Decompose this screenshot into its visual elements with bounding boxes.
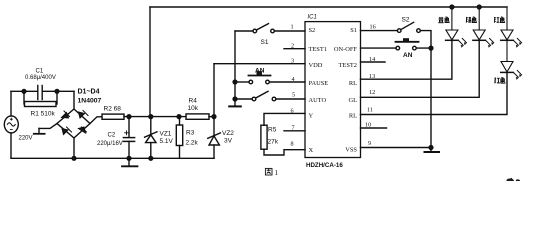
svg-text:X: X (309, 147, 314, 154)
svg-text:PAUSE: PAUSE (309, 80, 329, 87)
wire pin9 VSS (361, 147, 432, 149)
svg-text:9: 9 (368, 140, 371, 147)
svg-text:10: 10 (365, 121, 371, 128)
svg-text:3: 3 (291, 58, 294, 65)
wire pin4 (269, 81, 305, 83)
wire pin6 Y (264, 113, 305, 125)
svg-text:1: 1 (275, 169, 279, 177)
pushbutton AN (left) (249, 80, 253, 84)
svg-text:ON-OFF: ON-OFF (334, 46, 358, 53)
svg-text:13: 13 (369, 73, 375, 80)
wire AC line horizontal (11, 90, 37, 92)
node VDD junction (212, 115, 216, 119)
ground (bridge minus) (38, 128, 40, 133)
label red LED upper (494, 17, 499, 23)
resistor R4 (186, 114, 209, 119)
svg-text:VZ2: VZ2 (222, 130, 234, 137)
svg-text:5.1V: 5.1V (160, 138, 174, 145)
node C2 bottom (127, 156, 131, 160)
LED red lower (501, 40, 522, 80)
pin numbers (291, 24, 376, 148)
svg-text:R5: R5 (268, 127, 277, 134)
svg-text:C2: C2 (108, 133, 116, 139)
svg-text:S1: S1 (261, 39, 269, 46)
svg-text:14: 14 (369, 56, 375, 63)
svg-text:2.2k: 2.2k (186, 140, 199, 147)
wire bridge bottom stem (73, 138, 75, 158)
svg-text:R1 510k: R1 510k (31, 111, 56, 118)
svg-text:TEST2: TEST2 (339, 62, 357, 69)
resistor R2 (102, 114, 124, 119)
node AUTO tap (233, 97, 237, 101)
LED green (473, 7, 494, 48)
svg-text:VSS: VSS (345, 147, 357, 154)
wire VDD rail up (213, 64, 215, 117)
bottom edge artifact (507, 178, 515, 181)
IC pin names (309, 27, 358, 154)
wire pin2 stub (284, 48, 305, 50)
svg-text:S2: S2 (402, 17, 410, 24)
node AN tap (233, 80, 237, 84)
wire bridge top stem (73, 91, 75, 109)
wire pin5 (276, 98, 305, 100)
svg-text:220V: 220V (19, 136, 33, 142)
zener VZ1 (150, 117, 152, 135)
diode D1 top-left arm (62, 111, 70, 118)
node AN-S2 ground column (429, 46, 433, 50)
ground (switch rail) (229, 105, 241, 107)
bridge rectifier D1-D4 frame (57, 109, 90, 138)
diode D3 bottom-left arm (62, 127, 72, 135)
svg-text:R2 68: R2 68 (104, 106, 122, 113)
svg-text:C1: C1 (36, 69, 44, 75)
node C2 tap (127, 115, 131, 119)
label red LED lower (495, 78, 500, 84)
LED colour labels (438, 17, 505, 83)
switch AUTO (252, 97, 256, 101)
wire ground rail (switch common) (234, 31, 236, 106)
wire S2 right to ground column (420, 31, 431, 46)
svg-text:220μ/16V: 220μ/16V (97, 141, 123, 147)
wire pin15 (361, 47, 397, 49)
diode D4 bottom-right arm (79, 127, 87, 133)
AC source 220V (4, 116, 18, 133)
wire pin16 (361, 30, 398, 32)
ground (below C2) (128, 158, 130, 166)
svg-text:10k: 10k (188, 105, 199, 112)
svg-text:R4: R4 (189, 98, 198, 105)
wire AN left (235, 81, 249, 83)
zener VZ2 (213, 117, 215, 136)
wire bottom rail (11, 157, 214, 159)
svg-text:5: 5 (292, 92, 295, 99)
node VZ1 tap (149, 115, 153, 119)
node R3-R4 tap (177, 115, 181, 119)
svg-text:3V: 3V (224, 138, 233, 145)
node VSS ground (429, 146, 433, 150)
wire pin3 VDD (214, 63, 305, 65)
pushbutton AN (right) (396, 46, 400, 50)
node C1-R1 right (55, 89, 59, 93)
wire AN right to ground column (416, 47, 431, 49)
svg-text:2: 2 (291, 43, 294, 50)
ground (VSS) (430, 148, 432, 152)
wire pin1 (274, 30, 305, 32)
svg-text:VDD: VDD (309, 62, 323, 69)
capacitor C2 (electrolytic) (123, 137, 134, 139)
svg-text:6: 6 (291, 107, 294, 114)
wire bridge left output (39, 124, 57, 129)
svg-text:4: 4 (292, 76, 295, 83)
svg-text:12: 12 (369, 89, 375, 96)
wire pin13 to blue LED (361, 41, 452, 79)
LED blue (446, 7, 467, 48)
svg-text:S1: S1 (350, 27, 357, 34)
label blue LED (438, 17, 443, 23)
wire AUTO left (235, 98, 252, 100)
svg-text:1: 1 (291, 24, 294, 31)
svg-text:11: 11 (367, 106, 373, 113)
wire R3 to rail (179, 146, 181, 159)
wire ground column (430, 46, 432, 148)
wire supply node (124, 116, 186, 118)
IC IC1 HDZH/CA-16 box (305, 22, 361, 158)
svg-text:AUTO: AUTO (309, 97, 327, 104)
svg-text:S2: S2 (309, 27, 316, 34)
svg-text:R3: R3 (186, 130, 195, 137)
svg-text:GL: GL (348, 97, 357, 104)
wire R5 bottom to pin8 X (264, 149, 305, 155)
node blue LED / top rail (450, 5, 454, 9)
svg-text:VZ1: VZ1 (160, 131, 172, 138)
diode D2 top-right arm (79, 111, 89, 119)
wire C2 riser (128, 117, 130, 138)
resistor R1 (25, 102, 57, 107)
wire AC source top stem (10, 91, 12, 116)
wire C2 to rail (128, 141, 130, 158)
switch S1 (253, 29, 257, 33)
wire top rail (150, 6, 507, 8)
wire pin7 stub (284, 130, 305, 132)
label figure caption (265, 168, 272, 175)
svg-text:AN: AN (403, 52, 413, 59)
svg-text:IC1: IC1 (308, 15, 317, 21)
wire pin12 to green LED (361, 41, 480, 97)
wire pin10 stub (361, 127, 387, 129)
wire R3 riser (179, 117, 181, 125)
capacitor C1 (37, 86, 39, 100)
svg-text:RL: RL (349, 112, 357, 119)
svg-text:16: 16 (370, 24, 376, 31)
node green LED / top rail (477, 5, 481, 9)
svg-text:RL: RL (349, 80, 357, 87)
wire R1 right riser (56, 91, 58, 104)
wire R1 left riser (23, 91, 25, 104)
switch S2 (397, 29, 401, 33)
node bridge-bottom rail (72, 156, 76, 160)
svg-text:Y: Y (309, 112, 314, 119)
svg-text:1N4007: 1N4007 (78, 98, 102, 105)
node C1-R1 left (22, 89, 26, 93)
node VZ1 bottom (149, 156, 153, 160)
svg-text:27k: 27k (268, 139, 279, 146)
resistor R5 (261, 125, 267, 149)
LED red upper (501, 7, 522, 48)
label green LED (466, 17, 471, 23)
wire pin11 to red LEDs (361, 73, 508, 115)
wire bridge right output (90, 117, 102, 124)
resistor R3 (176, 125, 182, 146)
svg-text:HDZH/CA-16: HDZH/CA-16 (306, 162, 343, 169)
wire S1 left (235, 30, 253, 32)
wire AC source bottom stem (10, 133, 12, 158)
svg-text:TEST1: TEST1 (309, 46, 327, 53)
wire left vertical from top rail to supply node (149, 7, 151, 117)
svg-text:7: 7 (292, 125, 295, 132)
svg-text:AN: AN (255, 68, 265, 75)
wire pin14 stub (361, 61, 386, 63)
svg-text:8: 8 (291, 140, 294, 147)
svg-text:D1~D4: D1~D4 (78, 89, 100, 96)
svg-text:0.68μ/400V: 0.68μ/400V (25, 75, 56, 81)
